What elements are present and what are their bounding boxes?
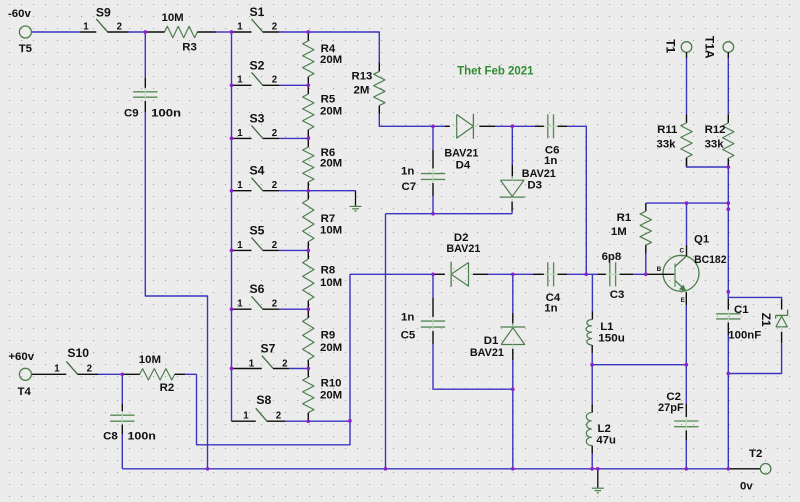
svg-text:1: 1 [83, 21, 89, 32]
wire right column lower [727, 335, 729, 469]
wire C9 bottom return [145, 112, 207, 469]
inductor L1 150u [586, 312, 625, 354]
svg-text:150u: 150u [598, 333, 625, 345]
zener diode Z1 [759, 300, 788, 343]
switch S6 [232, 282, 280, 309]
wire S5 to R column [279, 249, 308, 251]
svg-text:1: 1 [243, 411, 249, 422]
svg-text:1: 1 [237, 128, 243, 139]
svg-text:+60v: +60v [8, 351, 34, 363]
svg-text:1: 1 [237, 180, 243, 191]
title text Thet Feb 2021 [457, 63, 533, 77]
wire R2 output [185, 373, 196, 375]
svg-text:2: 2 [272, 75, 277, 86]
inductor L2 47u [586, 405, 616, 454]
svg-text:S2: S2 [250, 58, 265, 72]
svg-text:T2: T2 [749, 448, 762, 460]
svg-text:B: B [657, 266, 662, 273]
svg-text:1M: 1M [611, 226, 627, 238]
capacitor C5 1n [401, 298, 446, 344]
resistor R3 10M [145, 12, 216, 53]
svg-text:L2: L2 [598, 423, 611, 435]
wire C4 to node [567, 273, 598, 275]
svg-text:2M: 2M [354, 85, 370, 97]
svg-text:R7: R7 [321, 213, 336, 225]
svg-text:100nF: 100nF [728, 330, 761, 342]
wire C9 top lead [144, 32, 146, 78]
capacitor C4 1n [533, 262, 567, 314]
resistor R6 20M [303, 138, 343, 190]
wire T1 lead [686, 58, 688, 114]
switch S9 [80, 5, 129, 32]
svg-text:S9: S9 [96, 5, 111, 19]
svg-text:1n: 1n [401, 165, 414, 177]
wire D3 node to C6 [512, 125, 535, 127]
wire L1 to L2 node [591, 353, 593, 405]
svg-text:L1: L1 [600, 321, 614, 333]
svg-text:C9: C9 [124, 108, 139, 120]
wire zener branch bottom [728, 343, 781, 374]
svg-text:BAV21: BAV21 [470, 347, 505, 359]
resistor R1 1M [611, 203, 652, 274]
svg-text:C5: C5 [401, 330, 416, 342]
svg-text:2: 2 [272, 299, 277, 310]
svg-text:10M: 10M [320, 224, 342, 236]
svg-text:10M: 10M [162, 12, 184, 24]
svg-text:1: 1 [237, 240, 243, 251]
switch S2 [232, 58, 280, 85]
svg-text:Thet Feb 2021: Thet Feb 2021 [457, 63, 533, 77]
wire C3 to R1 node [633, 273, 646, 275]
wire right column upper [727, 167, 729, 299]
svg-text:R3: R3 [182, 42, 197, 54]
svg-text:D1: D1 [484, 335, 499, 347]
svg-text:1: 1 [237, 75, 243, 86]
svg-text:BAV21: BAV21 [444, 147, 479, 159]
svg-text:C3: C3 [610, 289, 625, 301]
svg-text:27pF: 27pF [658, 402, 684, 414]
svg-text:S4: S4 [250, 164, 265, 178]
svg-text:R5: R5 [321, 94, 336, 106]
wire L2 bottom [591, 454, 593, 469]
wire L node to emitter column [592, 364, 686, 366]
resistor R2 10M [122, 354, 185, 394]
wire D4 to D3 node [495, 125, 512, 127]
svg-text:33k: 33k [705, 139, 725, 151]
svg-text:33k: 33k [657, 139, 677, 151]
resistor R8 10M [303, 250, 343, 309]
diode D2 BAV21 [433, 232, 488, 287]
svg-text:S8: S8 [256, 393, 271, 407]
wire C8 bottom return [121, 434, 123, 469]
svg-text:BAV21: BAV21 [446, 243, 481, 255]
wire D1 bottom to rail [512, 360, 514, 469]
switch S7 [232, 342, 290, 370]
svg-text:R10: R10 [321, 378, 342, 390]
resistor R12 33k [705, 114, 734, 167]
svg-text:20M: 20M [320, 158, 342, 170]
wire S7 to R column [289, 368, 308, 370]
wire D1 top lead [512, 274, 514, 313]
resistor R4 20M [303, 32, 343, 85]
diode D1 BAV21 [470, 313, 526, 360]
capacitor C6 1n [535, 114, 567, 167]
switch S4 [232, 164, 280, 191]
svg-text:1: 1 [237, 299, 243, 310]
svg-text:47u: 47u [596, 435, 616, 447]
wire ground rail [122, 468, 728, 470]
resistor R7 10M [303, 191, 343, 251]
svg-text:S6: S6 [250, 282, 265, 296]
svg-text:T5: T5 [19, 43, 33, 55]
svg-text:1: 1 [237, 21, 243, 32]
svg-text:6p8: 6p8 [602, 251, 622, 263]
svg-text:C: C [680, 248, 685, 255]
diode D3 BAV21 [500, 165, 557, 211]
wire emitter to L row [685, 305, 687, 404]
svg-text:S10: S10 [67, 346, 89, 360]
terminal T1 [664, 39, 692, 58]
svg-text:20M: 20M [320, 389, 342, 401]
wire D2 row left riser [197, 274, 351, 445]
wire S9 to node C9 [129, 31, 146, 33]
svg-text:-60v: -60v [8, 8, 31, 20]
wire T5 to S9 [32, 31, 80, 33]
svg-text:100n: 100n [151, 108, 181, 120]
diode D4 BAV21 [444, 114, 495, 172]
wire C5 bottom link [433, 344, 513, 389]
wire C7 D3 bottom row [386, 213, 513, 215]
svg-text:T4: T4 [18, 386, 32, 398]
wire T1A lead [727, 58, 729, 114]
wire C7 row riser to rail [385, 214, 387, 469]
svg-text:T1A: T1A [703, 36, 717, 59]
wire C5 top lead [432, 274, 434, 298]
wire D2 row [350, 273, 445, 275]
capacitor C1 100nF [716, 299, 761, 342]
wire R11 R12 bottom link [687, 158, 729, 167]
switch S10 [31, 346, 98, 375]
svg-text:2: 2 [117, 21, 122, 32]
resistor R10 20M [303, 369, 343, 422]
svg-text:R11: R11 [657, 124, 678, 136]
resistor R13 2M [352, 63, 386, 115]
wire D2 to D1 node [488, 273, 533, 275]
wire zener branch top [728, 297, 781, 299]
wire C7 top lead [432, 126, 434, 150]
terminal T1A [703, 36, 734, 59]
svg-text:2: 2 [272, 21, 277, 32]
wire collector top [686, 203, 688, 245]
svg-text:S7: S7 [261, 342, 276, 356]
svg-text:2: 2 [272, 240, 277, 251]
wire S10 to C8 node [98, 373, 122, 375]
switch S1 [232, 5, 280, 32]
svg-text:2: 2 [87, 364, 92, 375]
svg-text:0v: 0v [740, 480, 753, 492]
svg-text:E: E [681, 297, 685, 304]
ground at R6-R7 node [350, 191, 362, 211]
svg-text:S1: S1 [250, 5, 265, 19]
svg-text:10M: 10M [139, 354, 161, 366]
svg-text:1: 1 [54, 364, 60, 375]
svg-text:BC182: BC182 [694, 254, 726, 266]
svg-text:R13: R13 [352, 71, 373, 83]
wire D3 bottom lead [511, 211, 513, 214]
ground at 0v rail [592, 469, 604, 493]
capacitor C3 6p8 [598, 251, 634, 301]
svg-text:R1: R1 [617, 212, 632, 224]
wire S6 to R column [279, 308, 308, 310]
capacitor C2 27pF [658, 391, 699, 440]
svg-text:1n: 1n [544, 155, 557, 167]
capacitor C8 100n [103, 404, 156, 443]
svg-text:20M: 20M [320, 54, 342, 66]
wire C6 to right column [567, 126, 586, 274]
capacitor C9 100n [124, 78, 181, 120]
transistor Q1 BC182 [646, 234, 727, 306]
svg-text:20M: 20M [320, 106, 342, 118]
svg-text:Z1: Z1 [759, 313, 773, 327]
resistor R11 33k [657, 114, 693, 166]
svg-text:2: 2 [276, 411, 281, 422]
resistor R5 20M [303, 85, 343, 138]
wire C8 top lead [121, 374, 123, 404]
svg-text:BAV21: BAV21 [522, 168, 557, 180]
terminal T5 -60v [8, 8, 33, 55]
wire R6-R7 node to ground [308, 190, 355, 192]
wire L column upper [591, 274, 593, 311]
svg-text:2: 2 [282, 358, 287, 369]
wire S8 to R10 and right [285, 420, 350, 422]
svg-text:D3: D3 [527, 180, 542, 192]
svg-text:C1: C1 [734, 304, 749, 316]
resistor R9 20M [303, 309, 343, 368]
svg-text:1n: 1n [544, 303, 557, 315]
wire S4 to R column [279, 190, 308, 192]
wire R4 top to R13 [308, 32, 379, 63]
svg-text:C8: C8 [103, 431, 118, 443]
svg-text:2: 2 [272, 180, 277, 191]
switch S5 [232, 223, 280, 250]
wire C1 top lead [727, 292, 729, 299]
terminal T2 0v [728, 448, 771, 493]
svg-text:R12: R12 [705, 124, 726, 136]
wire C7 bottom lead [432, 196, 434, 214]
svg-text:R9: R9 [321, 330, 336, 342]
wire S1 to R4 top [279, 31, 308, 33]
svg-text:S5: S5 [250, 223, 265, 237]
svg-text:S3: S3 [250, 111, 265, 125]
svg-text:1n: 1n [401, 312, 414, 324]
svg-text:Q1: Q1 [694, 234, 710, 246]
svg-text:T1: T1 [664, 39, 678, 53]
wire S3 to R column [279, 137, 308, 139]
svg-text:2: 2 [272, 128, 277, 139]
svg-text:D4: D4 [456, 159, 471, 171]
wire D3 top lead [511, 126, 513, 165]
switch S8 [232, 393, 286, 422]
terminal T4 +60v [8, 351, 34, 398]
wire R13 bottom to D4 row [379, 114, 450, 126]
bus of switch column [231, 32, 233, 421]
svg-text:R2: R2 [160, 382, 175, 394]
wire R3 to bus [216, 31, 232, 33]
svg-text:C7: C7 [402, 181, 417, 193]
svg-text:20M: 20M [320, 342, 342, 354]
wire R1 top rail [646, 202, 729, 204]
wire C2 bottom lead [685, 440, 687, 469]
svg-text:100n: 100n [128, 431, 156, 443]
svg-text:10M: 10M [320, 277, 342, 289]
switch S3 [232, 111, 280, 138]
wire S2 to R column [279, 84, 308, 86]
svg-text:R8: R8 [321, 265, 336, 277]
capacitor C7 1n [401, 150, 445, 196]
svg-text:1: 1 [249, 358, 255, 369]
